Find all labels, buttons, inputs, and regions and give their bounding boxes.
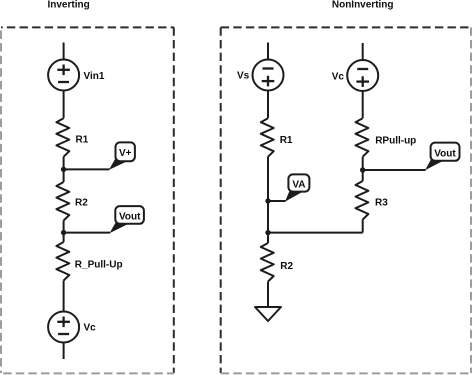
wire junction rail to R3 bottom <box>268 232 363 234</box>
resistor R_Pull-Up <box>56 242 69 281</box>
node V+ junction dot <box>61 167 66 172</box>
flag V+ tail <box>109 153 131 170</box>
resistor R2 (right panel) <box>261 243 274 282</box>
wire R1 down to bottom junction (right) <box>267 157 269 243</box>
resistor R1 (right panel) <box>261 118 274 157</box>
svg-text:R_Pull-Up: R_Pull-Up <box>75 260 123 271</box>
wire R2 to ground <box>267 282 269 308</box>
svg-text:Vc: Vc <box>332 72 345 83</box>
wire bottom stub below Vc <box>63 343 65 360</box>
resistor R1 (left panel) <box>56 118 69 157</box>
svg-text:Vin1: Vin1 <box>84 71 105 82</box>
dashed box left panel bottom edge <box>1 372 174 374</box>
wire top stub above Vc (right) <box>362 43 364 60</box>
node Vout junction dot <box>61 230 66 235</box>
resistor RPull-up <box>356 118 369 157</box>
flag Vout tail (right) <box>425 155 446 171</box>
svg-text:Vc: Vc <box>84 323 97 334</box>
flag Vout box (left) <box>115 206 144 224</box>
dashed box left panel left edge <box>0 27 2 373</box>
dashed box right panel left edge <box>220 27 222 373</box>
dashed box left panel right edge <box>173 27 175 373</box>
svg-text:Vs: Vs <box>237 71 250 82</box>
dashed box left panel top edge <box>1 26 174 28</box>
node bottom junction dot (right) <box>265 230 270 235</box>
svg-text:VA: VA <box>292 179 305 190</box>
svg-text:Inverting: Inverting <box>47 0 89 11</box>
svg-text:V+: V+ <box>119 148 132 159</box>
wire Vin1 to R1 <box>63 91 65 119</box>
voltage source Vc (left panel) <box>48 312 79 343</box>
wire R1 to R2 <box>63 157 65 182</box>
svg-text:R1: R1 <box>280 135 293 146</box>
svg-text:Vout: Vout <box>434 148 456 159</box>
resistor R3 <box>356 181 369 220</box>
voltage source Vin1 <box>48 60 79 91</box>
wire top stub above Vin1 <box>63 43 65 60</box>
wire Vs to R1 (right) <box>267 91 269 119</box>
svg-text:R2: R2 <box>75 198 88 209</box>
flag V+ box <box>116 142 135 161</box>
svg-text:Vout: Vout <box>119 212 141 223</box>
voltage source Vc (right panel) <box>347 60 378 91</box>
wire node to Vout flag <box>64 232 110 234</box>
svg-text:R1: R1 <box>76 134 89 145</box>
wire node to VA flag <box>268 200 286 202</box>
wire node to Vout flag (right) <box>363 169 426 171</box>
wire Vc to RPull-up <box>362 91 364 118</box>
dashed box right panel bottom edge <box>221 372 471 374</box>
flag Vout tail (left) <box>110 218 131 233</box>
wire RPull-up to R3 <box>362 157 364 181</box>
wire R_Pull-Up to Vc <box>63 281 65 312</box>
wire node to V+ flag <box>64 168 110 170</box>
ground <box>255 307 281 321</box>
svg-text:NonInverting: NonInverting <box>332 0 394 11</box>
resistor R2 (left panel) <box>56 182 69 221</box>
dashed box right panel right edge <box>470 27 472 373</box>
voltage source Vs <box>253 60 284 91</box>
wire R2 to R_Pull-Up <box>63 221 65 243</box>
svg-text:R2: R2 <box>280 261 293 272</box>
wire top stub above Vs <box>267 43 269 60</box>
wire R3 to junction rail <box>362 220 364 233</box>
svg-text:R3: R3 <box>375 198 388 209</box>
node Vout junction dot (right) <box>360 167 365 172</box>
dashed box right panel top edge <box>221 26 471 28</box>
node VA junction dot <box>265 198 270 203</box>
svg-text:RPull-up: RPull-up <box>375 136 416 147</box>
flag Vout box (right) <box>431 143 460 161</box>
flag VA tail <box>285 186 303 201</box>
flag VA box <box>288 174 309 191</box>
